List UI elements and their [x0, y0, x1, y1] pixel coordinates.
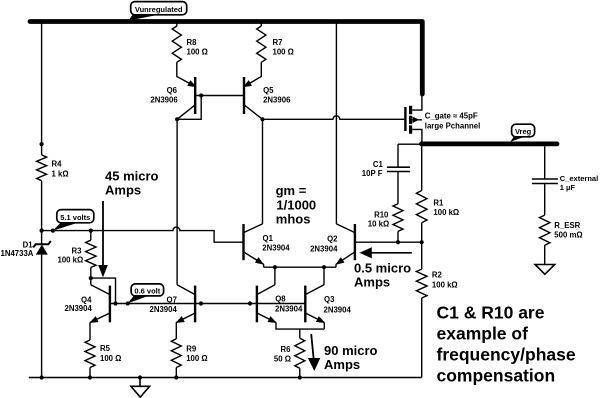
wire Q6 collector down to Q7: [176, 119, 178, 284]
resistor R_ESR: [540, 215, 550, 245]
transistor Q6 2N3906: [177, 77, 198, 119]
net label 5.1 volts: [53, 210, 94, 231]
svg-text:R5: R5: [100, 344, 111, 353]
label D1: [1, 240, 34, 258]
resistor R7: [257, 26, 266, 62]
resistor R3: [86, 240, 96, 267]
svg-text:10P F: 10P F: [362, 169, 383, 178]
note 0.5 micro Amps: [354, 260, 411, 289]
wire Q8 emitter to R6 node: [276, 323, 324, 330]
wire R3 node to base rail: [91, 278, 116, 303]
label C1: [362, 160, 384, 178]
resistor R10: [393, 204, 403, 232]
capacitor C1: [387, 167, 410, 171]
svg-text:Amps: Amps: [105, 183, 141, 198]
svg-text:1 kΩ: 1 kΩ: [52, 170, 69, 179]
label C_external: [560, 174, 598, 192]
svg-text:R9: R9: [186, 344, 197, 353]
wire Vunregulated top rail: [30, 19, 422, 24]
net label Vreg: [510, 124, 534, 142]
svg-text:R2: R2: [432, 271, 443, 280]
label R6: [274, 345, 291, 364]
label R7: [273, 38, 294, 56]
wire ground rail: [29, 377, 422, 379]
resistor R4: [37, 155, 47, 181]
wire Q2 emitter corner: [335, 264, 337, 267]
wire R7 to Q5 emitter: [244, 62, 261, 86]
svg-text:R4: R4: [52, 160, 63, 169]
transistor Q1 2N3904: [244, 224, 266, 268]
wire C1 to R10: [397, 172, 399, 204]
resistor R6: [299, 329, 301, 338]
wire left vertical from rail: [41, 22, 43, 378]
svg-text:Q7: Q7: [167, 295, 177, 304]
svg-text:Q8: Q8: [275, 294, 286, 303]
wire C_external top: [544, 146, 546, 179]
wire C1 top to Vreg: [398, 144, 422, 167]
note 90 micro Amps: [324, 343, 378, 372]
resistor R8: [172, 26, 181, 62]
svg-text:100 kΩ: 100 kΩ: [433, 208, 459, 217]
wire R3 top: [90, 231, 92, 241]
transistor Q2 2N3904: [334, 224, 355, 268]
svg-text:R8: R8: [187, 38, 198, 47]
svg-text:R1: R1: [433, 199, 444, 208]
svg-text:Amps: Amps: [324, 357, 360, 372]
svg-text:2N3904: 2N3904: [275, 305, 303, 314]
svg-text:Q3: Q3: [324, 295, 335, 304]
label R_ESR: [554, 221, 582, 239]
wire Q7 emitter to R9: [175, 323, 177, 339]
svg-text:2N3904: 2N3904: [150, 305, 178, 314]
svg-text:Q5: Q5: [263, 86, 274, 95]
label Q3: [324, 295, 352, 315]
svg-text:C_gate ≈ 45pF: C_gate ≈ 45pF: [425, 111, 478, 120]
svg-text:R6: R6: [281, 345, 292, 354]
diode D1 zener 1N4733A: [33, 241, 51, 255]
wire 5.1 volt node: [42, 227, 243, 242]
label Q4: [65, 295, 93, 313]
transistor Q8 2N3904: [257, 285, 278, 326]
label R10: [368, 211, 389, 229]
svg-text:100 Ω: 100 Ω: [273, 47, 294, 56]
node junction dots: [40, 93, 424, 379]
label C_gate: [425, 111, 480, 130]
wire thick drop to PMOS source: [420, 22, 425, 95]
note compensation: [437, 303, 576, 386]
svg-text:45 micro: 45 micro: [105, 169, 159, 184]
svg-text:50 Ω: 50 Ω: [274, 355, 291, 364]
svg-text:100 Ω: 100 Ω: [186, 354, 207, 363]
resistor R2: [416, 269, 427, 298]
svg-text:gm =: gm =: [276, 183, 307, 198]
wire Q4 emitter to R5: [89, 323, 91, 341]
svg-text:C1 & R10 are: C1 & R10 are: [437, 303, 545, 323]
wire Q1 emitter corner: [263, 264, 265, 267]
wire R2 bottom to ground rail: [421, 298, 423, 378]
svg-text:5.1 volts: 5.1 volts: [60, 213, 90, 222]
resistor R5: [85, 340, 95, 368]
svg-text:D1: D1: [23, 240, 34, 249]
svg-text:Amps: Amps: [354, 274, 390, 289]
svg-text:mhos: mhos: [276, 212, 311, 227]
label R8: [187, 38, 208, 56]
wire R7 top: [260, 22, 262, 27]
wire Q5 collector down to Q1 collector: [262, 119, 264, 224]
wire Q3 collector up: [323, 267, 325, 285]
wire R5 bottom: [89, 368, 91, 378]
svg-text:100 kΩ: 100 kΩ: [432, 280, 458, 289]
label Q6: [150, 86, 178, 104]
wire Q6 base to Q5 base: [195, 95, 244, 97]
wire rail down to Q2 collector: [335, 23, 337, 224]
note 45 micro Amps: [105, 169, 159, 198]
label Q1: [262, 234, 290, 252]
label Q5: [263, 86, 291, 104]
resistor R9: [171, 339, 181, 368]
svg-text:0.6 volt: 0.6 volt: [134, 286, 160, 295]
svg-text:R3: R3: [72, 247, 83, 256]
wire emitter rail Q1-Q2: [264, 266, 336, 268]
label R1: [433, 199, 459, 218]
transistor Q4 2N3904: [88, 285, 110, 326]
current arrow 90 micro amps: [308, 334, 320, 371]
wire Q2 base line: [355, 241, 422, 243]
svg-text:example of: example of: [437, 324, 529, 344]
wire R1 bottom: [421, 223, 423, 243]
wire Q8 collector up: [274, 267, 276, 285]
label Q7: [150, 295, 178, 313]
wire Vreg rail: [422, 141, 558, 146]
label R4: [52, 160, 69, 179]
svg-text:C_external: C_external: [560, 174, 598, 183]
wire Q5 collector node to PMOS gate: [263, 116, 405, 120]
svg-text:2N3904: 2N3904: [310, 245, 338, 254]
transistor Q5 2N3906: [241, 77, 262, 119]
svg-text:1 µF: 1 µF: [560, 183, 576, 192]
transistor PMOS pass device: [405, 96, 422, 144]
svg-text:100 Ω: 100 Ω: [187, 47, 208, 56]
svg-text:C1: C1: [373, 160, 384, 169]
svg-text:Vreg: Vreg: [515, 127, 532, 136]
wire Q6 diode connection: [177, 96, 201, 120]
svg-text:Q2: Q2: [327, 235, 338, 244]
current arrow 45 micro amps: [98, 201, 108, 277]
svg-text:Vunregulated: Vunregulated: [135, 5, 183, 14]
svg-text:100 Ω: 100 Ω: [100, 354, 121, 363]
svg-text:R10: R10: [374, 211, 389, 220]
svg-text:frequency/phase: frequency/phase: [437, 345, 576, 365]
label R5: [100, 344, 121, 363]
label R2: [432, 271, 458, 290]
svg-text:R7: R7: [273, 38, 283, 47]
wire R8 top: [176, 22, 178, 27]
wire R2 top: [421, 242, 423, 269]
label R3: [58, 247, 84, 265]
svg-text:500 mΩ: 500 mΩ: [554, 231, 582, 240]
svg-text:0.5 micro: 0.5 micro: [354, 260, 411, 275]
svg-text:compensation: compensation: [437, 366, 556, 386]
ground symbol output: [535, 265, 555, 275]
svg-text:Q1: Q1: [263, 234, 274, 243]
wire R10 bottom: [397, 231, 399, 242]
svg-text:10 kΩ: 10 kΩ: [368, 220, 389, 229]
wire R9 bottom: [175, 368, 177, 378]
svg-text:2N3904: 2N3904: [324, 306, 352, 315]
ground symbol bottom: [131, 378, 150, 398]
wire R6 bottom: [299, 368, 301, 377]
wire base rail Q4-Q7-Q8-Q3: [110, 303, 305, 305]
label Q8: [275, 294, 303, 313]
note gm = 1/1000 mhos: [276, 183, 317, 227]
wire R8 to Q6 emitter: [177, 62, 195, 86]
capacitor C_external: [532, 179, 558, 184]
svg-text:2N3904: 2N3904: [262, 243, 290, 252]
label R9: [186, 344, 207, 363]
svg-text:100 kΩ: 100 kΩ: [58, 256, 84, 265]
svg-text:Q6: Q6: [167, 86, 178, 95]
label Q2: [310, 235, 338, 254]
transistor Q7 2N3904: [174, 285, 195, 326]
net label 0.6 volt: [128, 284, 164, 303]
svg-text:90 micro: 90 micro: [324, 343, 378, 358]
svg-text:2N3904: 2N3904: [65, 304, 93, 313]
svg-text:large Pchannel: large Pchannel: [425, 122, 480, 131]
wire R1 top: [421, 146, 423, 190]
wire R_ESR to ground: [544, 245, 546, 264]
svg-text:2N3906: 2N3906: [150, 95, 178, 104]
current arrow 0.5 micro amps: [360, 247, 412, 258]
wire C_external to R_ESR: [544, 184, 546, 216]
svg-text:1/1000: 1/1000: [276, 198, 316, 213]
resistor R1: [416, 191, 427, 223]
net label Vunregulated: [128, 2, 186, 21]
svg-text:1N4733A: 1N4733A: [1, 249, 34, 258]
transistor Q3 2N3904: [305, 285, 326, 326]
wire Q3 emitter corner: [323, 323, 325, 330]
svg-text:2N3906: 2N3906: [263, 95, 291, 104]
wire R3 bottom node: [90, 268, 92, 285]
svg-text:R_ESR: R_ESR: [554, 221, 580, 230]
